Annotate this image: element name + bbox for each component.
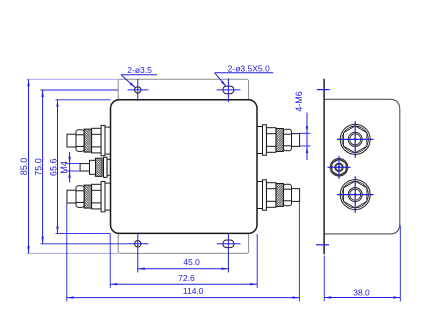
svg-text:75.0: 75.0	[34, 158, 44, 176]
svg-text:72.6: 72.6	[178, 273, 195, 283]
svg-text:2-ø3.5: 2-ø3.5	[127, 65, 152, 75]
svg-text:M4: M4	[59, 161, 69, 174]
svg-text:85.0: 85.0	[19, 158, 29, 176]
svg-text:114.0: 114.0	[183, 286, 204, 296]
svg-text:38.0: 38.0	[353, 287, 370, 297]
svg-text:4-M6: 4-M6	[294, 91, 304, 112]
svg-text:2-ø3.5X5.0: 2-ø3.5X5.0	[228, 63, 270, 73]
svg-text:45.0: 45.0	[183, 257, 200, 267]
svg-text:65.6: 65.6	[49, 159, 59, 177]
